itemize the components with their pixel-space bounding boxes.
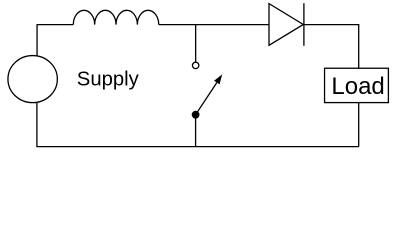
switch SW1 contact dot (192, 111, 200, 119)
switch SW1 upper lead (195, 25, 197, 62)
switch SW1 lower lead (195, 115, 197, 147)
wire top middle segment from inductor to diode anode (159, 24, 269, 26)
switch SW1 arrowhead (214, 74, 222, 84)
wire bottom segment and left return (37, 100, 359, 147)
diode D1 (269, 3, 304, 46)
load box (325, 68, 389, 102)
switch SW1 blade (196, 83, 217, 115)
svg-text:Load: Load (331, 73, 384, 100)
inductor (73, 10, 158, 24)
supply source V1 (8, 56, 57, 103)
wire top-right segment from diode cathode down to load (304, 25, 359, 147)
wire top-left segment from supply to inductor (37, 25, 73, 60)
svg-text:Supply: Supply (77, 69, 140, 91)
switch SW1 open terminal (192, 62, 198, 68)
